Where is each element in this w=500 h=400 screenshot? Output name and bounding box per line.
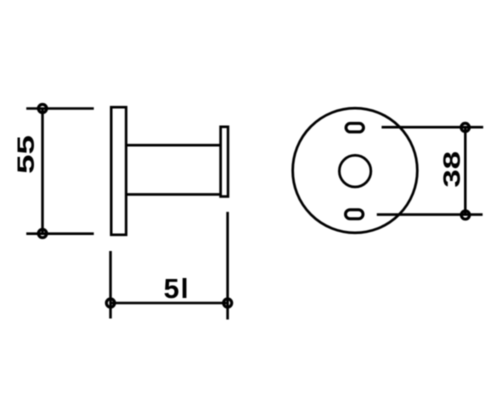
dimension 51: right extension line [226, 212, 229, 320]
center hole [339, 155, 371, 187]
dimension 55: bottom end circle [38, 229, 46, 237]
hook stem top line [126, 144, 221, 147]
dimension 51: right end circle [224, 299, 232, 307]
dimension 51: dimension line [111, 302, 228, 305]
dimension 38: bottom end circle [461, 211, 469, 219]
dimension 55: top extension line [26, 107, 94, 110]
dimension 38: dimension line [464, 127, 467, 215]
dimension 55: label [13, 135, 39, 174]
dimension 55: top end circle [38, 104, 46, 112]
svg-text:55: 55 [13, 135, 39, 174]
svg-text:5l: 5l [164, 273, 190, 304]
dimension 51: label [164, 273, 190, 304]
wall plate (side view) [111, 107, 126, 235]
hook stem bottom line [126, 193, 221, 196]
hook end cap [221, 127, 228, 197]
svg-text:38: 38 [439, 151, 466, 187]
dimension 38: top end circle [461, 123, 469, 131]
dimension 55: bottom extension line [26, 232, 94, 235]
top screw slot [346, 123, 364, 131]
mounting plate (front view) [293, 108, 418, 233]
dimension 38: top leader line [382, 126, 484, 129]
bottom screw slot [346, 210, 364, 219]
dimension 38: bottom leader line [377, 213, 483, 216]
dimension 51: left end circle [106, 299, 114, 307]
dimension 55: dimension line [41, 109, 44, 234]
dimension 51: left extension line [109, 251, 112, 319]
dimension 38: label [439, 151, 466, 187]
